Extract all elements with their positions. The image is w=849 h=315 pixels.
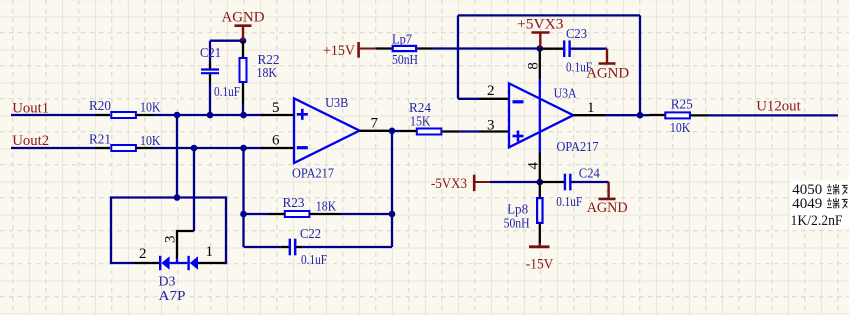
wire R20 to pin5 node [153,114,264,116]
wire wire1 down to D3 loop [176,115,178,198]
note text background [791,181,849,229]
svg-text:7: 7 [371,116,379,132]
wire Lp7 to +5VX3 node [434,47,540,49]
power port AGND at C24 [607,182,609,199]
resistor R22 [242,41,244,57]
junction pin4/C24/Lp8 [537,179,544,186]
svg-text:10K: 10K [670,121,691,136]
resistor R25 body [665,112,690,118]
diode D3 pin 1 lead [198,262,226,264]
capacitor C22 plates [290,239,295,256]
capacitor C21 [209,82,211,115]
svg-text:18K: 18K [316,200,337,215]
svg-text:4: 4 [526,162,542,170]
junction R23 left [240,211,247,218]
svg-text:AGND: AGND [586,66,629,82]
diode D3 left half [159,256,161,270]
capacitor C24 plates [565,174,570,191]
pin 6 U3B [261,147,294,149]
svg-text:U12out: U12out [756,99,801,115]
resistor R24 body [417,129,442,135]
wire Uout1 to R20 [11,114,95,116]
diode D3 right half [187,256,189,270]
op-amp U3B minus input mark [297,146,308,149]
wire R25 to U12out [709,114,838,116]
svg-text:R21: R21 [89,133,111,148]
junction wire1/C21 [207,112,214,119]
wire jog to D3 pin 3 [177,231,194,258]
svg-text:D3: D3 [159,274,176,289]
inductor Lp8 [539,182,541,197]
wire pin1 to junction [605,114,640,116]
pin 1 U3A [573,114,605,116]
note text chinese chars [827,184,839,195]
junction wire2/D3 pin3 [191,145,198,152]
capacitor C24 [540,181,564,183]
svg-text:C24: C24 [579,167,600,182]
svg-text:OPA217: OPA217 [557,140,599,155]
power port +5VX3 [532,31,550,34]
junction wire2/feedback [240,145,247,152]
wire to R23 [244,213,270,215]
resistor R25 [640,114,649,116]
wire feedback right vertical [639,15,641,115]
svg-text:Uout2: Uout2 [12,133,49,149]
junction wire1/R22 [240,112,247,119]
svg-text:U3B: U3B [325,96,348,111]
pin 2 U3A [479,98,509,100]
diode D3 pin 2 lead [134,262,159,264]
wire C21 top to AGND node [210,40,243,42]
wire R24 to pin3 [459,130,480,132]
power port AGND top [242,26,244,41]
svg-text:3: 3 [487,118,495,134]
svg-text:C22: C22 [300,227,321,242]
junction AGND/C21/R22 [240,37,247,44]
op-amp U3B [294,98,360,163]
wire feedback top [458,14,640,16]
svg-text:-5VX3: -5VX3 [431,176,467,192]
svg-text:5: 5 [272,100,280,116]
svg-text:OPA217: OPA217 [292,166,334,181]
svg-text:+5VX3: +5VX3 [517,16,564,32]
op-amp U3A minus input mark [513,100,524,103]
wire stub to diode midpoint [176,258,178,263]
svg-text:3: 3 [163,236,179,244]
resistor R23 [269,213,284,215]
svg-text:R25: R25 [671,98,693,113]
capacitor C22 [244,246,281,248]
svg-text:Lp7: Lp7 [392,32,412,47]
resistor R20 [95,114,110,116]
power port -15V [539,243,541,247]
op-amp U3A plus input mark [513,131,524,142]
junction +5VX3/pin8/C23 [537,45,544,52]
junction D3 loop top [174,194,181,201]
svg-text:0.1uF: 0.1uF [556,195,582,210]
pin 4 U3A [539,152,541,182]
wire R21 to pin6 node [153,147,264,149]
svg-text:10K: 10K [140,134,161,149]
svg-text:10K: 10K [140,101,161,116]
svg-text:18K: 18K [257,66,278,81]
pin 7 U3B [360,130,393,132]
op-amp U3A power rail line inside [539,79,541,152]
svg-text:C23: C23 [566,27,587,42]
svg-text:4049: 4049 [792,196,822,212]
wire C22 right [303,246,392,248]
svg-text:1: 1 [587,100,595,116]
resistor R20 body [111,112,136,118]
svg-text:0.1uF: 0.1uF [214,85,240,100]
svg-text:Lp8: Lp8 [507,203,528,218]
wire between diodes [170,262,188,264]
power port -5VX3 [473,175,476,191]
power port +15V [357,42,360,58]
wire feedback left vertical [242,148,244,247]
svg-text:R20: R20 [89,99,111,114]
inductor Lp7 [376,47,392,49]
svg-text:2: 2 [487,83,495,99]
pin 5 U3B [261,114,294,116]
resistor R23 body [285,211,310,217]
junction R23 right [389,211,396,218]
svg-text:C21: C21 [200,46,221,61]
wire -5VX3 to pin4 node [490,181,540,183]
svg-text:U3A: U3A [554,87,578,102]
svg-text:50nH: 50nH [392,53,418,68]
junction wire1/D3 [174,112,181,119]
junction pin7/R24/feedback [389,128,396,135]
op-amp U3A [509,83,573,147]
resistor R21 [95,147,110,149]
svg-text:-15V: -15V [526,256,554,272]
D3 outer loop wire [111,198,226,264]
wire feedback left vertical U3A [457,15,459,98]
svg-text:1K/2.2nF: 1K/2.2nF [791,213,843,229]
svg-text:1: 1 [206,244,214,260]
svg-text:6: 6 [272,133,280,149]
capacitor C21 plates [201,70,219,74]
pin 3 U3A [479,130,509,132]
svg-text:8: 8 [525,62,541,70]
wire R23 right [341,213,392,215]
wire feedback right vertical [391,131,393,247]
svg-text:AGND: AGND [222,9,265,25]
svg-text:15K: 15K [410,114,431,129]
capacitor C23 plates [564,40,569,57]
wire wire2 down to D3 pin3 [193,148,195,231]
resistor R22 body [240,58,247,82]
op-amp U3B plus input mark [297,109,308,120]
svg-text:A7P: A7P [159,289,186,304]
resistor R24 [392,130,400,132]
wire Uout2 to R21 [11,147,95,149]
svg-text:AGND: AGND [587,200,628,216]
svg-text:0.1uF: 0.1uF [301,253,327,268]
resistor R21 body [111,145,136,151]
pin 8 U3A [539,49,541,80]
svg-text:+15V: +15V [323,43,355,59]
svg-text:50nH: 50nH [504,217,530,232]
svg-text:R23: R23 [283,196,305,211]
capacitor C23 [540,48,564,50]
wire pin2 stub [458,98,479,100]
junction output/feedback [637,112,644,119]
svg-text:2: 2 [139,246,147,262]
power port AGND at C23 [606,49,608,64]
